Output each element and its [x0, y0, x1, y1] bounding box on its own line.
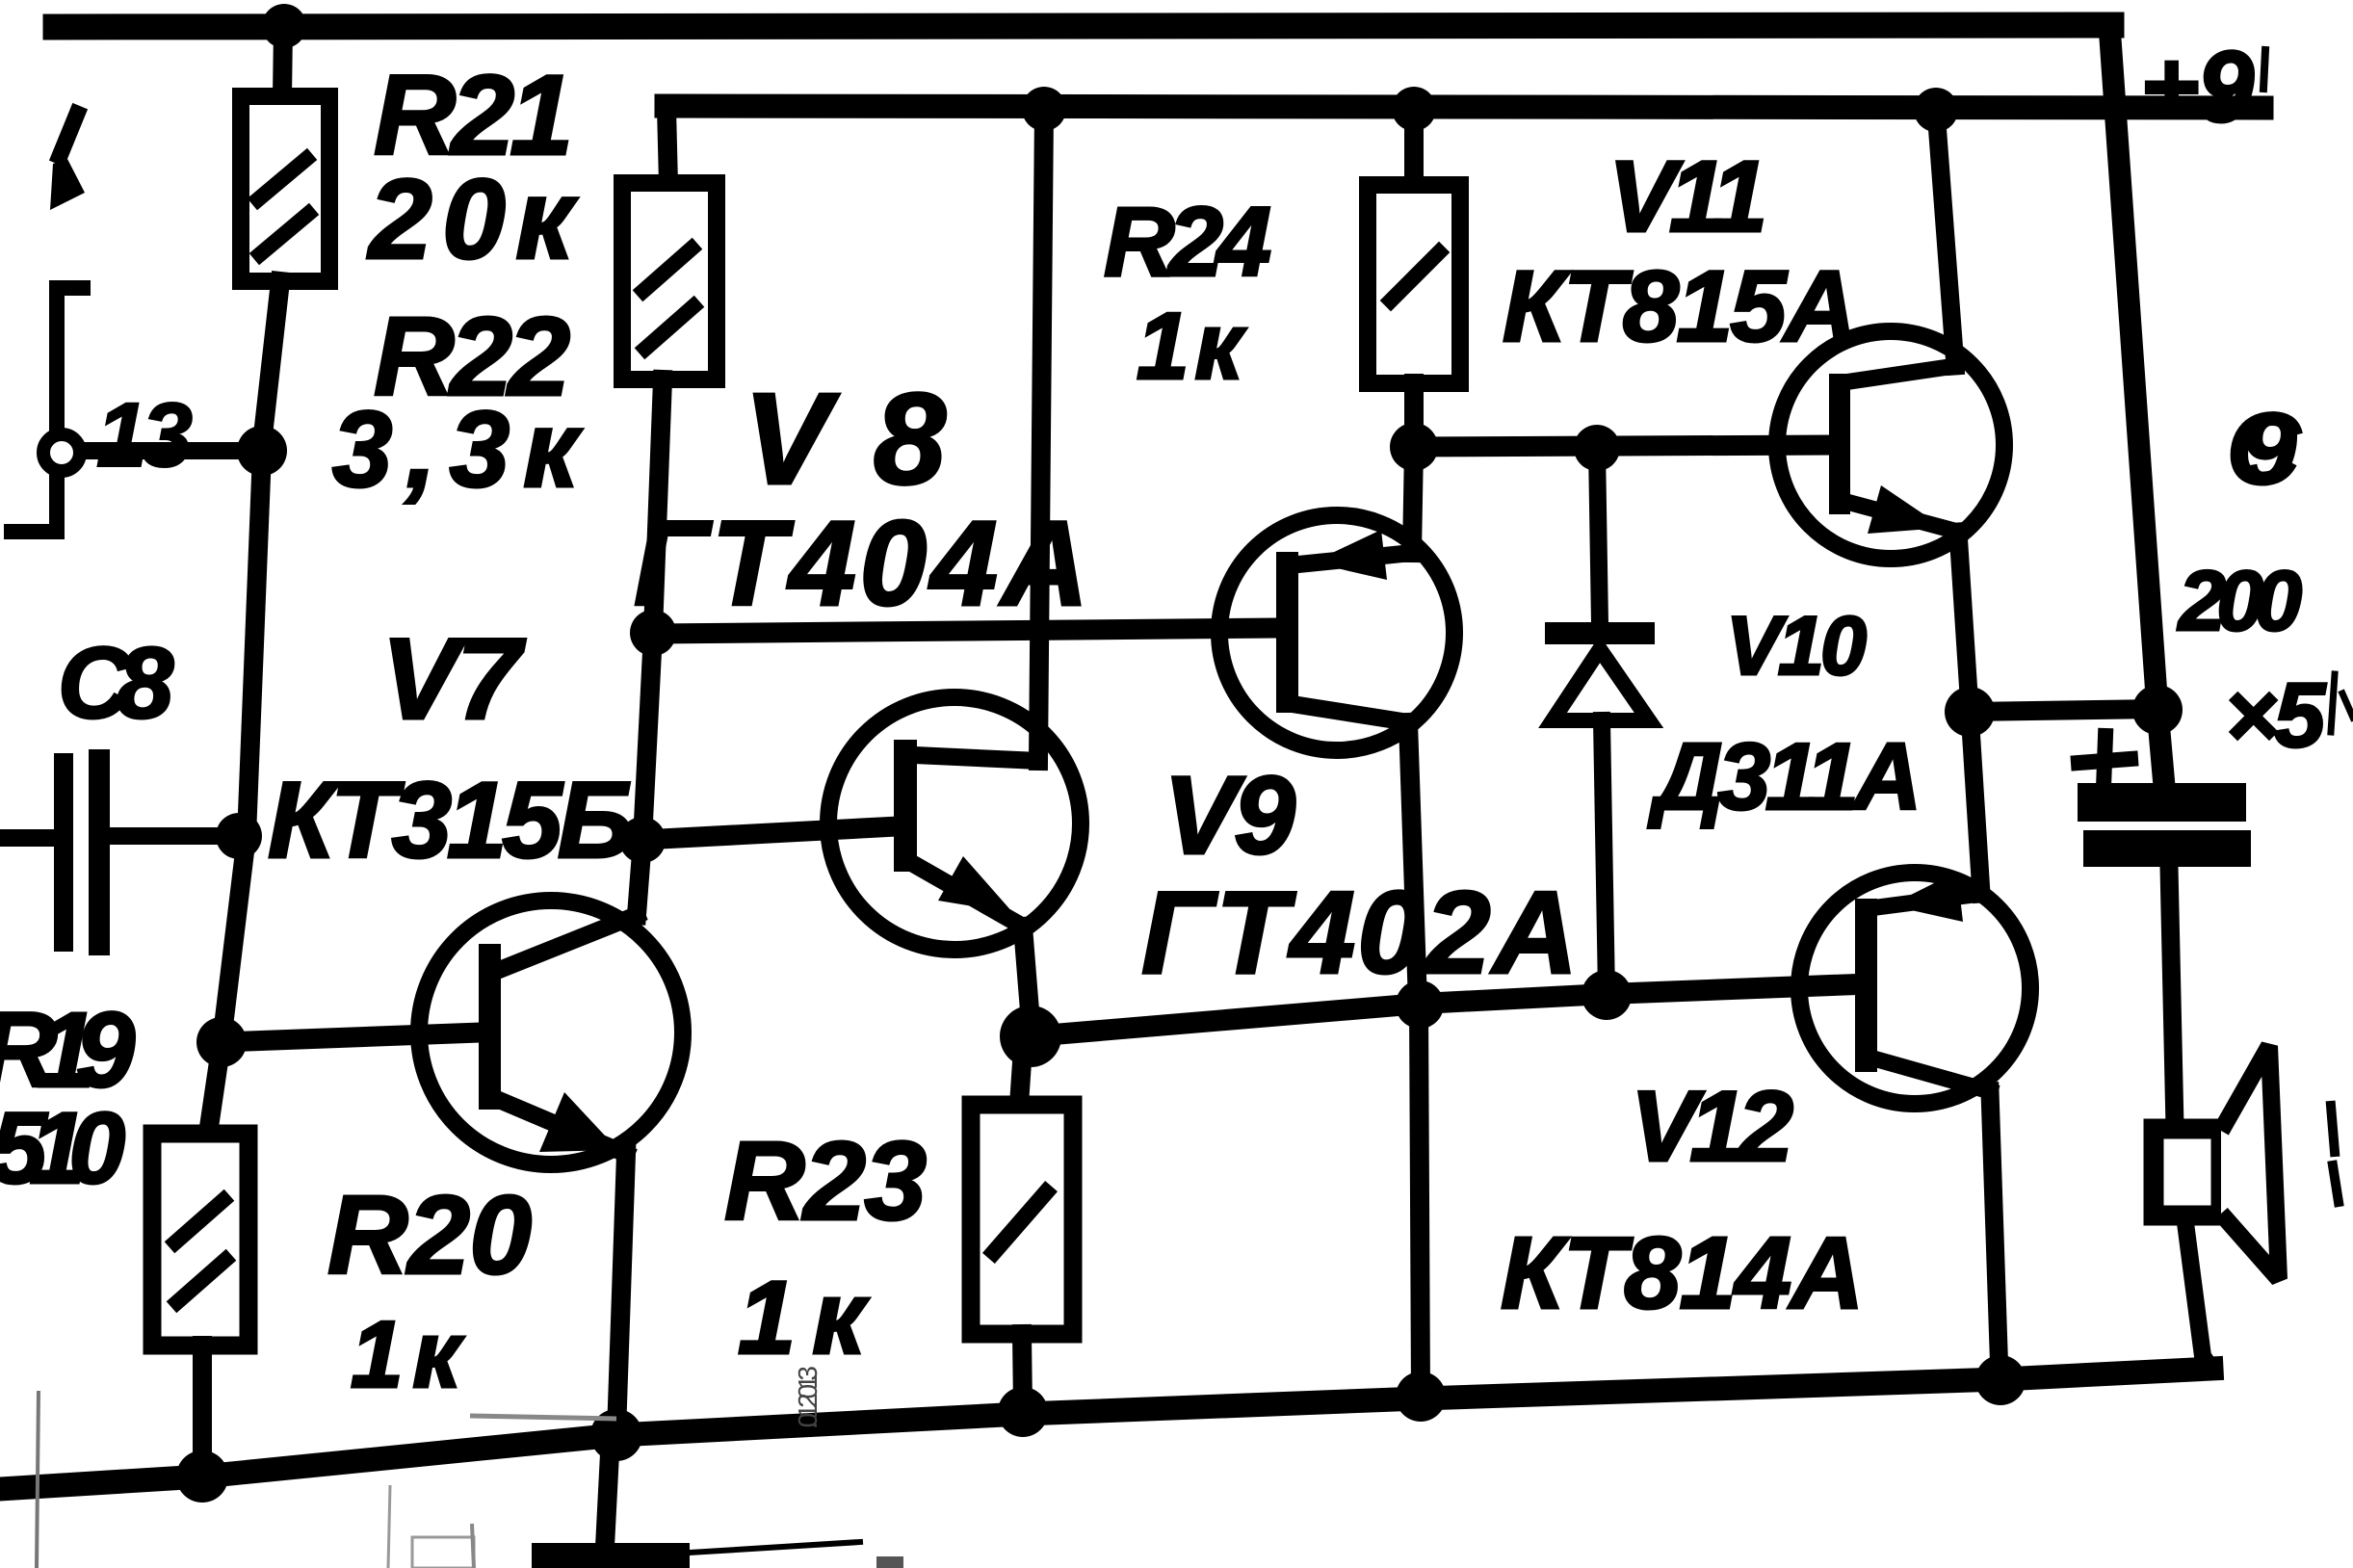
node V9 collector on middle wire [1396, 980, 1444, 1029]
wire R21 bottom lead [263, 281, 280, 435]
svg-text:R20: R20 [327, 1172, 532, 1297]
wire output node down to V12 [1970, 712, 1981, 894]
ground symbol [532, 1542, 860, 1568]
node V7 emitter on bottom rail [590, 1409, 642, 1461]
wire R21 top lead [282, 27, 283, 98]
label 1k R20 [351, 1301, 464, 1407]
svg-text:C8: C8 [58, 627, 174, 740]
node V12 collector on bottom rail [1975, 1355, 2026, 1405]
label 510 (cut) [0, 1092, 125, 1205]
svg-text:.01.2013: .01.2013 [793, 1366, 823, 1429]
wire down to V9 emitter [1412, 447, 1414, 553]
label R22 [374, 294, 570, 419]
wire R24 top lead [1404, 109, 1424, 187]
label C8 [58, 627, 174, 740]
wire top rail [56, 25, 2111, 27]
wire V12 collector down to bottom rail [1990, 1091, 2000, 1377]
wire node 13 horizontal [85, 442, 241, 459]
wire V10 top lead [1597, 448, 1600, 624]
svg-text:ГТ404А: ГТ404А [634, 497, 1088, 631]
wire right vertical from top rail down to output node and C9 [2109, 25, 2164, 786]
node R20 on bottom rail [176, 1450, 228, 1503]
wire left vertical (node13 to C8 to V7 base to R20) [208, 453, 262, 1134]
resistor R23 [971, 1105, 1073, 1334]
svg-text:КТ815А: КТ815А [1503, 250, 1857, 363]
wire +9V rail (second rail) [667, 106, 2261, 108]
wire V7 base lead [222, 1032, 482, 1042]
label KT815A [1503, 250, 1857, 363]
diode V10 D311A [1545, 622, 1655, 720]
svg-text:КТ315Б: КТ315Б [268, 760, 634, 880]
label V9 [1163, 754, 1295, 877]
wire V11 emitter down to output node [1958, 532, 1970, 709]
wire output node to C9 [1970, 709, 2157, 712]
resistor R21 [241, 96, 329, 281]
wire V9 collector down to middle wire [1408, 722, 1418, 1004]
node J2 (V8 base branch) [619, 817, 666, 863]
capacitor C9 plus sign [2078, 736, 2131, 788]
label 1k R23 [738, 1259, 870, 1375]
label 13 [96, 384, 193, 486]
label x5 [2225, 665, 2353, 767]
wire middle horizontal (to V12 base) [1031, 984, 1856, 1036]
svg-text:20к: 20к [367, 156, 578, 283]
wire R22 bottom lead to junction J1 [653, 379, 663, 631]
svg-text:V11: V11 [1608, 141, 1767, 253]
wire V10 bottom lead [1602, 720, 1607, 994]
label R24 [1104, 187, 1271, 297]
capacitor C9 [2078, 783, 2251, 1127]
wire R23 bottom lead [1022, 1334, 1023, 1408]
wire J1 to V9 base [653, 628, 1281, 634]
node R24 bottom junction [1390, 423, 1438, 471]
svg-text:КТ814А: КТ814А [1501, 1216, 1864, 1330]
label R21 [374, 52, 573, 179]
svg-text:510: 510 [0, 1092, 125, 1205]
label 200 [2177, 553, 2302, 648]
label V10 [1726, 600, 1867, 693]
label D311A [1648, 723, 1922, 829]
transistor V8 GT404A [828, 697, 1081, 950]
wire V9 node down to bottom rail [1419, 1005, 1421, 1395]
svg-text:V10: V10 [1726, 600, 1867, 693]
label +9 supply [2140, 31, 2265, 144]
wire J1 to J2 [642, 633, 653, 840]
node 13 junction [237, 426, 287, 476]
ground stub [605, 1435, 611, 1547]
node on bottom rail below V9 [1396, 1372, 1446, 1422]
resistor R22 [622, 183, 717, 379]
wire V8 emitter down [1023, 927, 1031, 1023]
wire V8 collector vertical [1038, 109, 1044, 761]
input lead mark (cut off at edge) [50, 114, 85, 210]
label C9 [2227, 393, 2302, 506]
transistor V12 KT814A [1799, 872, 2030, 1104]
transistor V11 KT815A [1777, 331, 2004, 559]
resistor R20 [152, 1134, 248, 1346]
wire R20 bottom lead [193, 1346, 212, 1469]
wire R23 top lead [1019, 1048, 1023, 1105]
node diode bottom on middle wire [1582, 970, 1632, 1020]
wire J2 down to V7 collector [637, 840, 642, 915]
faint artifacts below bottom rail [37, 1366, 903, 1568]
node junction of R21 on top rail [262, 4, 306, 48]
svg-text:+9: +9 [2140, 31, 2254, 144]
wire bottom rail (common) [0, 1369, 2211, 1489]
label GT402A [1141, 867, 1578, 998]
svg-text:R24: R24 [1104, 187, 1271, 297]
node V11 collector branch on +9 rail [1914, 88, 1958, 132]
node V8 collector branch on +9 rail [1022, 87, 1066, 131]
label V8 [744, 366, 946, 511]
connector bracket at pin 13 [12, 288, 83, 532]
svg-text:3,3к: 3,3к [332, 389, 583, 510]
node C8/left vertical junction [216, 813, 262, 859]
label 1k R24 [1137, 293, 1246, 399]
svg-text:Д311А: Д311А [1648, 723, 1922, 829]
node C9 top junction [2132, 685, 2183, 735]
label GT404A [634, 497, 1088, 631]
wire speaker bottom lead to rail corner [2184, 1215, 2210, 1368]
node R24 branch on +9 rail [1392, 87, 1436, 131]
label R23 [724, 1118, 927, 1243]
node output-left junction [1000, 1006, 1061, 1067]
wire R24 junction to V11 base [1414, 445, 1830, 447]
transistor V9 GT402A [1219, 515, 1454, 750]
node V7 base junction [196, 1017, 247, 1067]
terminal pin 13 open circle [43, 434, 80, 471]
label V12 [1631, 1071, 1793, 1183]
node diode top on R24 wire [1574, 425, 1620, 471]
wire V7 emitter down to bottom rail [616, 1154, 626, 1432]
node R23 on bottom rail [998, 1387, 1048, 1437]
label KT814A [1501, 1216, 1864, 1330]
speaker label mark [2331, 1106, 2339, 1202]
transistor V7 KT315B [419, 901, 683, 1164]
svg-text:×5: ×5 [2225, 665, 2326, 767]
svg-text:C9: C9 [2227, 393, 2302, 506]
node output junction [1945, 687, 1995, 737]
label 3,3k [332, 389, 583, 510]
svg-text:13: 13 [96, 384, 193, 486]
capacitor C8 [0, 749, 229, 955]
svg-text:200: 200 [2177, 553, 2302, 648]
label R19 (cut) [0, 991, 135, 1110]
label KT315B [268, 760, 634, 880]
svg-text:V12: V12 [1631, 1071, 1793, 1183]
label V7 [381, 614, 526, 744]
svg-text:ГТ402А: ГТ402А [1141, 867, 1578, 998]
label R20 [327, 1172, 532, 1297]
svg-text:V9: V9 [1163, 754, 1295, 877]
svg-text:V7: V7 [381, 614, 526, 744]
speaker B1 [2154, 1046, 2279, 1279]
wire +9 rail corner down to R22 [667, 108, 668, 185]
svg-text:R23: R23 [724, 1118, 927, 1243]
label 20k [367, 156, 578, 283]
wire J2 to V8 base [642, 826, 898, 840]
resistor R24 [1368, 185, 1460, 383]
label V11 [1608, 141, 1767, 253]
node J1 (V9 base branch) [630, 610, 676, 656]
wire V11 collector vertical [1936, 110, 1955, 366]
wire R24 bottom lead [1404, 383, 1424, 435]
